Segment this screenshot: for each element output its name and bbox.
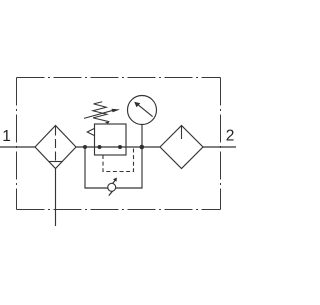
enclosure border bottom <box>17 209 221 211</box>
lubricator body (diamond) <box>160 126 203 169</box>
pressure gauge stem <box>141 124 143 147</box>
spring seat mark at box top <box>105 122 109 124</box>
wire: outlet line port 2 <box>203 146 236 148</box>
adjustment spring (zigzag) <box>93 102 109 124</box>
junction dot (loop left) <box>83 145 87 149</box>
pilot line (dashed) from regulator diaphragm to downstream <box>103 148 134 172</box>
enclosure border left <box>16 78 18 210</box>
lubricator oil drip line <box>181 126 183 139</box>
gauge needle <box>137 104 152 117</box>
relief valve upper arrow stroke <box>112 179 116 184</box>
svg-text:1: 1 <box>2 128 11 145</box>
gauge needle arrowhead <box>134 102 140 108</box>
svg-text:2: 2 <box>226 127 235 144</box>
enclosure border (dash-dot) top <box>17 77 221 79</box>
relief bypass loop below regulator <box>85 147 142 188</box>
junction dot (regulator inlet) <box>98 145 102 149</box>
relief valve arrowhead <box>113 178 117 182</box>
water separator chord <box>49 161 63 163</box>
junction dot (gauge / loop right) <box>140 145 145 150</box>
wire: main line filter to lubricator <box>76 146 160 148</box>
regulator body U1 <box>95 124 127 155</box>
junction dot (regulator outlet) <box>118 145 122 149</box>
filter F1 body (diamond) <box>35 126 76 169</box>
pressure gauge dial <box>128 96 157 125</box>
wire: inlet line port 1 <box>0 146 35 148</box>
enclosure border right <box>220 78 222 210</box>
filter element (dashed) <box>55 127 57 162</box>
condensate drain line <box>55 169 57 227</box>
adjustment arrow shaft <box>84 110 113 118</box>
relief valve lower tail stroke <box>109 190 114 196</box>
adjustment arrowhead <box>112 109 121 113</box>
relief valve circle <box>108 183 116 191</box>
vent triangle (relieving exhaust) <box>87 128 94 135</box>
